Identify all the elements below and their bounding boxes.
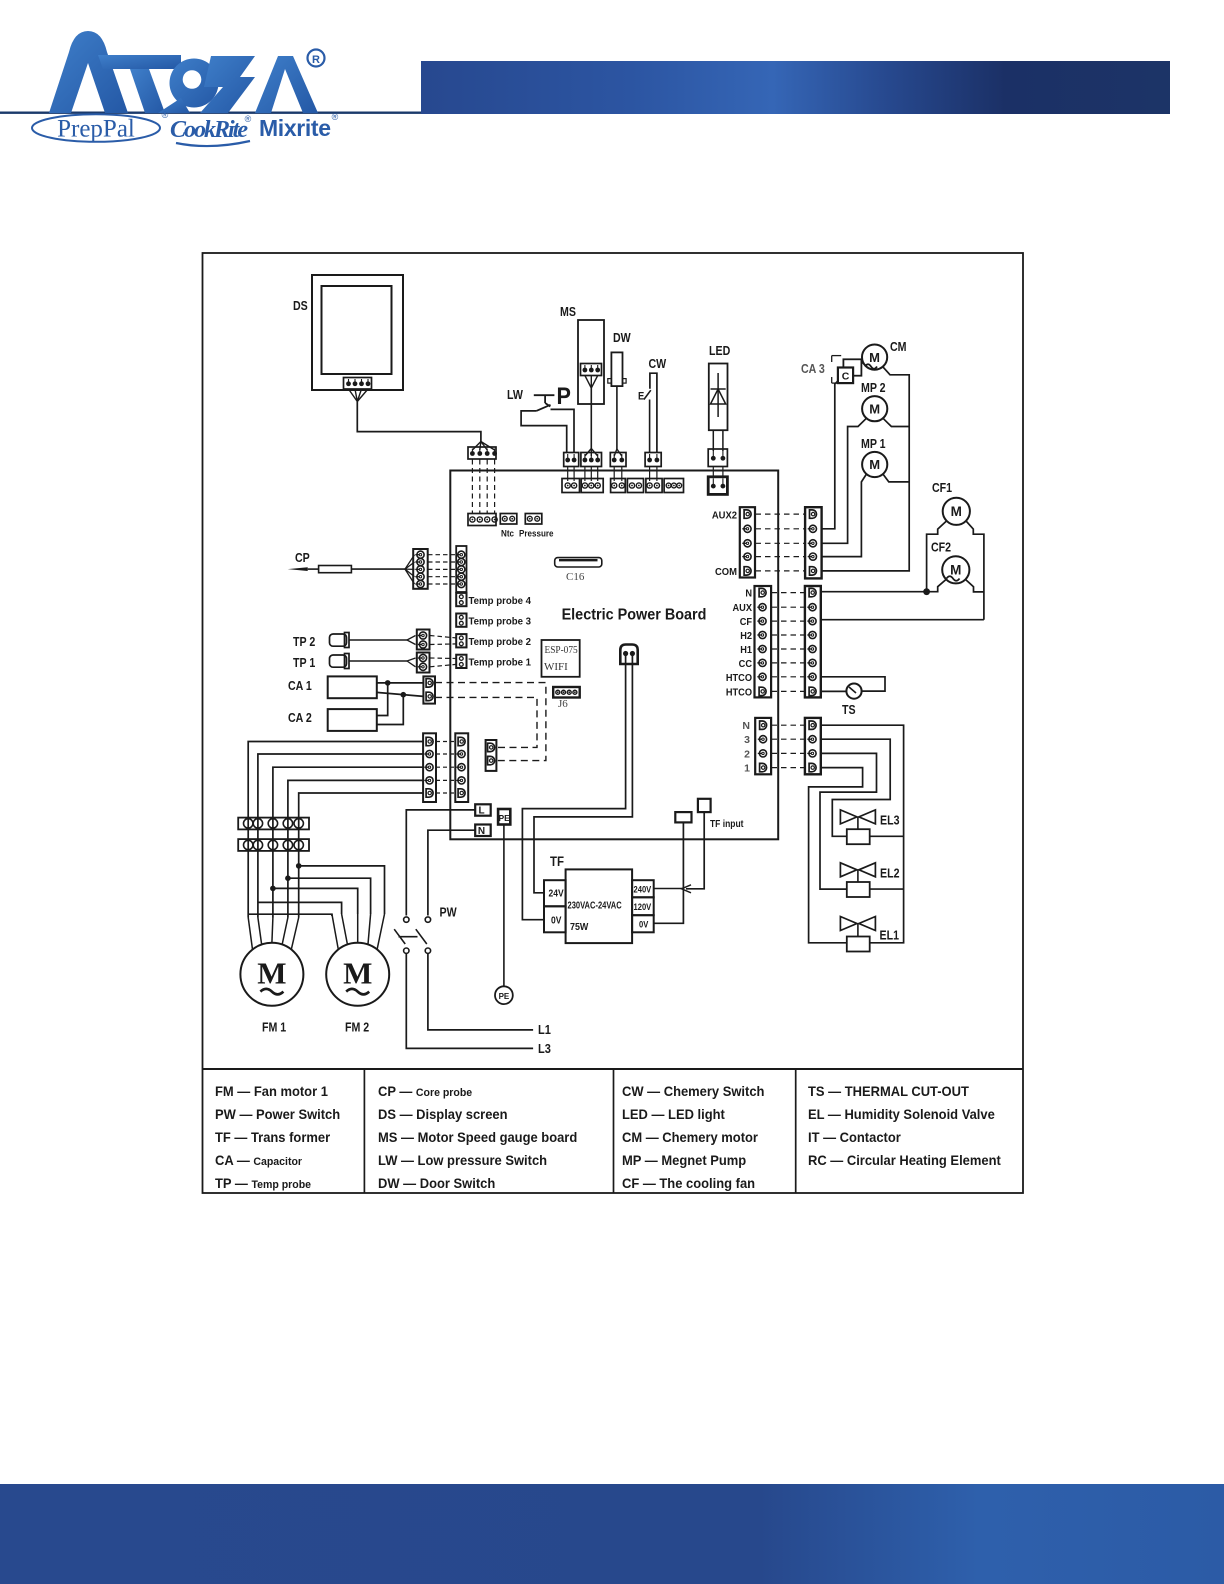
svg-text:Mixrite: Mixrite [259, 115, 331, 141]
connector 4-pin DS input [468, 447, 496, 459]
svg-text:0V: 0V [551, 915, 562, 926]
connector CA on-board 2-pin [486, 740, 497, 771]
wire DW down [616, 386, 618, 449]
svg-text:M: M [343, 956, 372, 991]
svg-text:MS: MS [560, 305, 576, 319]
svg-text:EL1: EL1 [880, 929, 900, 943]
svg-text:CW: CW [649, 357, 667, 371]
capacitor C16 [555, 558, 602, 567]
wire FM2 tap 5 [299, 866, 385, 914]
svg-text:H1: H1 [740, 645, 752, 657]
svg-text:CF: CF [740, 617, 752, 629]
svg-text:TS — THERMAL CUT-OUT: TS — THERMAL CUT-OUT [808, 1084, 969, 1099]
svg-text:RC — Circular Heating Element: RC — Circular Heating Element [808, 1153, 1001, 1168]
header bar [421, 61, 1170, 114]
connector N..HTCO external [805, 586, 821, 697]
svg-text:N: N [742, 720, 750, 732]
svg-text:R: R [312, 54, 320, 66]
CW lever [644, 390, 651, 399]
svg-text:CF — The cooling fan: CF — The cooling fan [622, 1176, 755, 1191]
svg-text:LW — Low pressure Switch: LW — Low pressure Switch [378, 1153, 547, 1168]
connector MS top [581, 453, 602, 467]
wire LW left lead [521, 411, 567, 452]
svg-text:MS — Motor Speed gauge board: MS — Motor Speed gauge board [378, 1130, 577, 1145]
wires LED leads [712, 430, 714, 451]
svg-text:TP 2: TP 2 [293, 635, 315, 649]
svg-text:230VAC-24VAC: 230VAC-24VAC [568, 899, 623, 910]
wire EL3 feed (pin 3) [822, 739, 891, 836]
svg-text:®: ® [332, 112, 339, 122]
wire CW left lead [649, 400, 651, 453]
connector DW bottom [611, 479, 626, 493]
connector spare 3-pin [664, 479, 683, 493]
DS cable fan [349, 389, 358, 402]
svg-text:DW — Door Switch: DW — Door Switch [378, 1176, 495, 1191]
wire TF input A down [654, 822, 684, 923]
solenoid valve EL2 [840, 863, 857, 877]
wire FM2 tap 2 [258, 902, 342, 914]
solenoid valve EL3 [840, 810, 857, 824]
wire PE down [503, 825, 505, 987]
svg-text:TF — Trans former: TF — Trans former [215, 1130, 330, 1145]
module ESP-075 WIFI [542, 640, 580, 677]
svg-text:TP 1: TP 1 [293, 656, 316, 670]
wires CA2 tap up [377, 683, 388, 716]
svg-text:0V: 0V [639, 919, 649, 930]
wires CA1 to connector [377, 682, 424, 684]
wire CM right lead (COM) [822, 367, 910, 571]
svg-text:LW: LW [507, 388, 523, 402]
MS connector fan [585, 449, 591, 457]
CF1 mount right [966, 521, 984, 620]
connector TF input B [698, 799, 711, 812]
wire EL1 feed (pin 1) [809, 768, 863, 943]
svg-text:M: M [869, 457, 880, 472]
svg-text:DS: DS [293, 299, 308, 313]
dashed links N321 [772, 724, 805, 726]
svg-text:®: ® [162, 110, 169, 120]
terminal PE [498, 809, 510, 825]
connector J6 [553, 687, 580, 698]
svg-text:WIFI: WIFI [544, 661, 568, 673]
svg-text:EL3: EL3 [880, 814, 900, 828]
connector TP1 [417, 653, 430, 673]
DS connector J-DS [344, 378, 372, 390]
PE ground circle [495, 986, 513, 1004]
svg-text:CA — Capacitor: CA — Capacitor [215, 1153, 303, 1168]
svg-text:PW: PW [440, 906, 457, 920]
svg-text:CF2: CF2 [931, 541, 951, 555]
svg-text:C: C [842, 371, 850, 383]
svg-text:P: P [557, 382, 571, 409]
svg-text:MP 1: MP 1 [861, 437, 886, 451]
svg-text:M: M [869, 401, 880, 416]
connector CP 5-pin [413, 549, 428, 589]
connector CW top [645, 453, 661, 467]
wires DW through board edge [613, 467, 615, 482]
terminal N [475, 825, 491, 837]
svg-text:L1: L1 [538, 1022, 551, 1037]
wires MS through board edge [584, 467, 586, 482]
TF 240V tap [632, 880, 654, 897]
svg-text:L: L [478, 806, 484, 817]
wires LW through board edge [567, 467, 569, 482]
wire LW right lead [551, 409, 575, 452]
svg-text:H2: H2 [740, 631, 752, 643]
terminal L [475, 804, 491, 815]
svg-text:CM: CM [890, 340, 907, 354]
wire C to pin2 [822, 381, 838, 529]
dashed links harness [436, 741, 455, 743]
CF1 mount left [927, 521, 947, 592]
PrepPal brand [32, 114, 160, 142]
svg-text:Electric Power Board: Electric Power Board [562, 606, 707, 624]
svg-text:MP 2: MP 2 [861, 381, 886, 395]
svg-text:PrepPal: PrepPal [57, 116, 135, 143]
svg-text:CM — Chemery motor: CM — Chemery motor [622, 1130, 758, 1145]
wire TF input B down with arrow [686, 812, 704, 889]
svg-text:E: E [638, 391, 644, 403]
connector N321 external [805, 718, 821, 774]
wires TP2 to board (dashed) [430, 636, 456, 638]
connector N321 on-board [755, 718, 771, 774]
wire harness 1 [248, 742, 423, 918]
svg-text:AUX2: AUX2 [712, 510, 738, 522]
svg-text:TP — Temp probe: TP — Temp probe [215, 1176, 311, 1191]
TF 0V right tap [632, 915, 654, 932]
svg-text:ESP-075: ESP-075 [545, 644, 578, 656]
svg-text:HTCO: HTCO [726, 687, 752, 699]
wire harness 5 [299, 793, 423, 918]
junction dot CF [923, 588, 930, 595]
svg-text:DS — Display screen: DS — Display screen [378, 1107, 508, 1122]
connector TF output 2-pin [620, 645, 637, 665]
wire FM2 tap 4 [288, 878, 371, 914]
svg-text:LED: LED [709, 344, 730, 358]
svg-text:3: 3 [744, 734, 750, 746]
svg-text:PW — Power Switch: PW — Power Switch [215, 1107, 340, 1122]
svg-text:75W: 75W [570, 921, 589, 933]
connector spare 2-pin [627, 479, 643, 493]
svg-text:CA 2: CA 2 [288, 711, 312, 725]
TF 120V tap [632, 897, 654, 915]
wire harness 2 [258, 754, 423, 918]
CF2 mount right [965, 579, 984, 592]
connector CA 2-pin [423, 676, 435, 703]
dashed link CA to board B [435, 697, 537, 747]
wire MP1 right lead [883, 474, 909, 482]
svg-text:Temp probe 1: Temp probe 1 [469, 657, 532, 668]
svg-text:CC: CC [739, 658, 752, 670]
svg-text:HTCO: HTCO [726, 672, 752, 684]
connector CP on-board 5-pin [456, 546, 466, 592]
fan motor FM 1 [240, 943, 303, 1006]
svg-text:M: M [950, 563, 961, 578]
wire FM2 tap 3 [273, 888, 358, 914]
wire MP2 left lead [822, 418, 867, 543]
wire CF row [822, 619, 984, 621]
svg-text:1: 1 [744, 763, 750, 775]
svg-text:CF1: CF1 [932, 481, 953, 495]
connector DW top [610, 453, 626, 467]
thermal cut-out TS [822, 677, 885, 691]
svg-text:LED — LED light: LED — LED light [622, 1107, 725, 1122]
svg-text:CW — Chemery Switch: CW — Chemery Switch [622, 1084, 764, 1099]
wire TF 24V line [534, 656, 632, 893]
footer bar [0, 1484, 1224, 1584]
connector 4-pin on board [468, 514, 496, 526]
wire DS to board [357, 402, 481, 442]
connector LW bottom [562, 479, 580, 493]
CF2 mount left [927, 579, 947, 592]
svg-text:Pressure: Pressure [519, 528, 554, 539]
dashed links N..HTCO [772, 592, 805, 594]
svg-text:DW: DW [613, 331, 631, 345]
svg-text:PE: PE [499, 813, 511, 823]
legend table frame [203, 1068, 1024, 1070]
MS internal fan [585, 376, 591, 389]
wire L to PW [406, 810, 475, 916]
solenoid valve EL1 [840, 917, 857, 931]
CP connector fan [405, 555, 415, 569]
Electric Power Board outline [450, 471, 778, 840]
dashed link CA to board A [435, 683, 546, 761]
wire EL2 feed (pin 2) [820, 753, 877, 889]
connector LED bottom (thick) [708, 477, 727, 495]
MS internal connector [581, 364, 602, 376]
connector TF input A [675, 812, 691, 822]
TF 0V tap [544, 906, 566, 932]
svg-text:FM 1: FM 1 [262, 1021, 287, 1035]
terminal block row 2 [238, 839, 309, 851]
svg-text:TS: TS [842, 703, 856, 717]
wire harness 3 [273, 767, 423, 917]
svg-text:FM — Fan motor 1: FM — Fan motor 1 [215, 1084, 328, 1099]
wires CW through board edge [649, 467, 651, 482]
header rule line [0, 112, 421, 114]
svg-text:Ntc: Ntc [501, 528, 514, 539]
logo (R) mark [308, 50, 325, 67]
wire MP2 right lead [883, 418, 909, 426]
svg-text:M: M [951, 504, 962, 519]
LW lever [536, 405, 550, 411]
svg-text:®: ® [245, 114, 252, 124]
terminal block row 1 [238, 818, 309, 830]
svg-text:M: M [869, 350, 880, 365]
svg-text:EL2: EL2 [880, 867, 899, 881]
svg-text:L3: L3 [538, 1041, 551, 1056]
svg-text:C16: C16 [566, 571, 585, 583]
CA3 dashed bracket [832, 355, 842, 357]
connector Temp probe 3 [456, 614, 466, 627]
TF 24V tap [544, 880, 566, 906]
svg-text:M: M [257, 956, 286, 991]
svg-text:FM 2: FM 2 [345, 1021, 369, 1035]
svg-text:CA 3: CA 3 [801, 362, 825, 376]
svg-text:AUX: AUX [733, 603, 753, 615]
connector Ntc [500, 514, 517, 525]
svg-text:120V: 120V [634, 901, 652, 912]
wire FM2 tap 1 [248, 914, 332, 916]
wire MP1 left lead [822, 474, 867, 557]
svg-text:CP: CP [295, 551, 310, 565]
dashed links AUX strip [756, 513, 805, 515]
svg-text:Temp probe 3: Temp probe 3 [469, 616, 532, 627]
svg-text:MP — Megnet Pump: MP — Megnet Pump [622, 1153, 746, 1168]
display screen DS [312, 275, 403, 390]
svg-text:COM: COM [715, 567, 737, 579]
wire PW to L3 [406, 953, 533, 1048]
svg-text:EL — Humidity Solenoid Valve: EL — Humidity Solenoid Valve [808, 1107, 995, 1122]
DS board connector fan [472, 442, 481, 451]
connector Temp probe 4 [456, 593, 466, 606]
Atosa logo [49, 31, 318, 113]
svg-text:240V: 240V [634, 884, 652, 895]
connector LW top [564, 453, 579, 467]
chemery motor CM [862, 345, 887, 370]
DW connector fan [614, 449, 617, 456]
svg-text:24V: 24V [549, 888, 565, 899]
diagram border [203, 253, 1024, 1193]
wire TF 0V line [522, 656, 625, 920]
wire harness 4 [288, 780, 423, 917]
svg-text:IT — Contactor: IT — Contactor [808, 1130, 901, 1145]
svg-text:PE: PE [499, 992, 510, 1001]
wire EL N common [822, 725, 904, 943]
wire 240V to junction [654, 888, 684, 890]
FM1 lead fan [248, 918, 252, 950]
svg-text:Temp probe 2: Temp probe 2 [469, 637, 532, 648]
svg-text:N: N [478, 826, 485, 837]
connector CW bottom [646, 479, 662, 493]
connector MS bottom [581, 479, 603, 493]
svg-text:J6: J6 [558, 698, 568, 710]
connector Temp probe 1 [456, 655, 466, 668]
wires DS connector to board (dashed) [471, 460, 473, 514]
wire MS to connector [590, 388, 592, 449]
junction dots CA [385, 680, 391, 686]
connector AUX2-COM external [805, 507, 822, 578]
wires TP1 to board (dashed) [430, 657, 456, 660]
connector Pressure [525, 514, 542, 525]
connector TP2 [417, 630, 430, 650]
svg-text:CP — Core probe: CP — Core probe [378, 1084, 472, 1099]
wire N to CF junction [822, 591, 927, 593]
svg-text:TF input: TF input [710, 818, 743, 829]
fan motor FM 2 [326, 943, 389, 1006]
wire CM left lead to C [861, 362, 866, 366]
svg-text:2: 2 [744, 748, 750, 760]
connector AUX2-COM on-board [740, 507, 755, 577]
connector harness outer 5-pin [423, 733, 436, 802]
svg-text:Temp probe 4: Temp probe 4 [469, 596, 532, 607]
connector Temp probe 2 [456, 634, 466, 647]
svg-text:CA 1: CA 1 [288, 679, 312, 693]
PW levers [394, 929, 405, 944]
connector N..HTCO on-board [755, 586, 772, 697]
wires LED through board edge [712, 467, 714, 478]
wire PW to L1 [428, 953, 533, 1030]
wires CP to board (dashed) [428, 554, 456, 556]
LED diode symbol [717, 373, 719, 417]
connector LED top [708, 449, 727, 467]
FM2 lead fan [332, 914, 338, 949]
svg-text:TF: TF [550, 854, 564, 869]
junction dots FM2 taps [296, 863, 302, 869]
connector harness inner 5-pin [455, 733, 468, 802]
svg-text:N: N [745, 588, 752, 600]
svg-text:CookRite: CookRite [170, 117, 248, 143]
wire N to PW [428, 830, 475, 915]
